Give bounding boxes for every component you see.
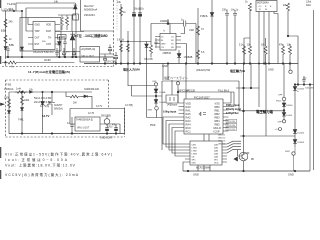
svg-text:OS-CON: OS-CON xyxy=(106,60,116,63)
resonator box xyxy=(166,95,178,103)
resistor R16 x288 xyxy=(287,3,290,36)
svg-text:D-006: D-006 xyxy=(286,115,293,117)
diode D8 at U4 right xyxy=(177,50,181,64)
terminal circle chain top xyxy=(154,83,157,86)
svg-text:0.0kg input: 0.0kg input xyxy=(163,111,176,114)
svg-text:50u(B)1b: 50u(B)1b xyxy=(134,8,145,11)
U6 left pin stubs xyxy=(179,103,185,131)
node dot xyxy=(42,91,43,92)
wire top of U6 xyxy=(178,91,234,93)
svg-text:RB4: RB4 xyxy=(215,119,221,123)
svg-text:240: 240 xyxy=(9,21,14,24)
diode D17 x9 xyxy=(8,111,11,114)
node dot xyxy=(283,110,285,112)
dashed divider x113 xyxy=(113,0,115,67)
svg-text:VCC-5V: VCC-5V xyxy=(227,129,236,131)
page border left mark lower xyxy=(0,56,2,179)
wire left input xyxy=(2,10,22,12)
svg-text:Vout: 上限異常:18.0V,下限:12.0V: Vout: 上限異常:18.0V,下限:12.0V xyxy=(5,163,76,168)
diode D5 top feed xyxy=(74,3,78,15)
svg-text:RB0: RB0 xyxy=(215,105,221,109)
svg-text:P.Setfg input: P.Setfg input xyxy=(226,108,241,111)
wire IC left feed xyxy=(21,11,23,57)
U4 left pin stubs xyxy=(155,37,160,48)
node dots y84.5 xyxy=(297,84,311,86)
svg-text:RA0: RA0 xyxy=(186,105,192,109)
svg-text:9B: 9B xyxy=(251,159,254,161)
svg-text:Vin:正常値は1~55V(動作下限:40V,異常上限:64: Vin:正常値は1~55V(動作下限:40V,異常上限:64V) xyxy=(5,152,112,157)
svg-text:NJM2360-400: NJM2360-400 xyxy=(84,88,100,91)
svg-text:1N4B: 1N4B xyxy=(59,36,65,39)
svg-text:ICSP: ICSP xyxy=(214,129,220,133)
svg-text:58V(5A): 58V(5A) xyxy=(54,108,63,111)
diode D15 x156 xyxy=(154,86,158,96)
resistor R18 x22 xyxy=(21,96,24,105)
svg-text:C2R: C2R xyxy=(189,29,194,32)
wire riser x198 xyxy=(197,8,199,64)
resistor R6b on x121 xyxy=(120,44,123,52)
capacitor C8 electrolytic polar xyxy=(132,13,136,17)
svg-text:RB5: RB5 xyxy=(215,122,221,126)
svg-text:OS-xx-2V 6.8u 47u: OS-xx-2V 6.8u 47u xyxy=(33,51,54,54)
svg-text:IoT左→14Cに接続1MΩ: IoT左→14Cに接続1MΩ xyxy=(74,33,108,38)
U7 left pin stubs xyxy=(185,144,190,162)
svg-text:1N4B4B: 1N4B4B xyxy=(160,20,169,23)
node dot xyxy=(71,116,73,118)
small box U2 xyxy=(58,35,67,40)
svg-text:Max=6V: Max=6V xyxy=(84,4,94,8)
svg-text:VC: VC xyxy=(171,44,174,46)
svg-text:13.7V: 13.7V xyxy=(96,105,103,108)
wire U7 bottom pins xyxy=(198,165,210,171)
wire riser x212 xyxy=(211,0,213,64)
upper-left box bottom dashed xyxy=(2,57,114,67)
svg-text:LTM1: LTM1 xyxy=(192,147,198,149)
svg-text:RA5: RA5 xyxy=(186,112,192,116)
diode D20 mid xyxy=(41,92,44,134)
U6 left pins xyxy=(186,101,192,133)
U4 right pin stubs xyxy=(176,37,187,64)
svg-text:13.7V: 13.7V xyxy=(42,114,49,118)
capacitor C5b xyxy=(62,48,65,57)
svg-text:PIC16F1827: PIC16F1827 xyxy=(194,95,210,99)
wire reset riser xyxy=(185,64,187,100)
zener circle comp xyxy=(104,119,110,125)
left arrow mark xyxy=(1,103,5,105)
diode D6 left of U4 xyxy=(145,42,149,59)
svg-text:1mH: 1mH xyxy=(16,88,21,91)
svg-text:TH: TH xyxy=(48,37,51,40)
svg-text:RA1: RA1 xyxy=(186,108,192,112)
node dots bottom xyxy=(187,170,296,172)
svg-text:VCC5V(の)消費電力(最大): 20mA: VCC5V(の)消費電力(最大): 20mA xyxy=(5,172,79,177)
lower mid wire y85.5 xyxy=(128,85,154,87)
svg-text:16v 1u: 16v 1u xyxy=(231,9,239,12)
component box 1R xyxy=(73,14,79,20)
U8 out wire xyxy=(100,124,120,134)
node dot xyxy=(21,10,22,11)
node dot xyxy=(177,91,179,93)
svg-text:P1B(3L: P1B(3L xyxy=(200,15,209,18)
vcc tags xyxy=(227,121,236,131)
svg-text:DAC: DAC xyxy=(306,4,311,7)
LED D9 xyxy=(210,13,214,17)
page border left mark xyxy=(0,0,2,8)
svg-text:LTM2: LTM2 xyxy=(192,150,198,152)
resistor R7 x150 xyxy=(150,24,153,58)
switch circle OFF xyxy=(282,120,285,123)
U6 right pin stubs xyxy=(223,103,229,131)
svg-text:OFF: OFF xyxy=(278,95,283,97)
bottom rail xyxy=(183,170,310,172)
wire to PWR row xyxy=(147,96,163,118)
svg-text:SW-1: SW-1 xyxy=(276,101,282,103)
svg-text:5.6 1k: 5.6 1k xyxy=(117,40,125,42)
svg-text:GND: GND xyxy=(193,173,199,177)
svg-text:P1c1,B0c2: P1c1,B0c2 xyxy=(218,90,230,92)
node dot xyxy=(155,95,157,97)
IC U4 driver box xyxy=(160,34,176,51)
capacitor C6 electrolytic xyxy=(103,54,106,64)
mosfet Q1 xyxy=(47,92,55,115)
svg-text:電圧ベースライン: 電圧ベースライン xyxy=(164,75,188,80)
wire riser x235 + cap xyxy=(233,10,237,64)
node dots gnd rail xyxy=(5,56,77,63)
wire riser x243 xyxy=(243,64,245,112)
transistor Q2 circle xyxy=(239,152,248,161)
svg-text:TA48033AS(4.5): TA48033AS(4.5) xyxy=(76,119,93,122)
wire top feed y20 xyxy=(151,23,196,25)
svg-text:GND: GND xyxy=(161,44,166,46)
svg-text:VCC-5V: VCC-5V xyxy=(227,125,236,127)
svg-text:+FQ05W5-4Q: +FQ05W5-4Q xyxy=(81,49,96,51)
resistor R12 top right xyxy=(249,3,252,11)
svg-text:GND: GND xyxy=(162,65,168,68)
node dot xyxy=(127,41,128,42)
GND rail upper-left xyxy=(6,56,114,58)
U1 pin text xyxy=(35,24,52,47)
resistor R3 xyxy=(61,15,64,30)
node dot xyxy=(243,110,245,112)
node dots mid rail xyxy=(104,63,291,65)
svg-text:MCP23008M: MCP23008M xyxy=(196,166,210,169)
wire riser x131 xyxy=(131,86,133,97)
capacitor C4 xyxy=(63,38,66,57)
svg-text:VIN (-) OUT: VIN (-) OUT xyxy=(77,127,90,129)
svg-text:VDD: VDD xyxy=(214,162,219,164)
wire riser x227 + cap xyxy=(225,10,229,64)
svg-text:100u16V: 100u16V xyxy=(305,88,314,90)
arrow mark q2 xyxy=(234,157,238,161)
svg-text:OFF: OFF xyxy=(152,81,157,83)
IC U1 controller box xyxy=(33,22,55,50)
resistor R9 on x198 xyxy=(197,50,200,59)
U7 left pins xyxy=(192,144,198,164)
terminal circle SW2b xyxy=(292,152,295,155)
node dot xyxy=(243,135,245,137)
svg-text:TL431: TL431 xyxy=(7,2,16,6)
svg-text:SPC: SPC xyxy=(192,159,197,161)
nested loop wires U6-U7 xyxy=(163,117,185,144)
wire x196 riser xyxy=(195,24,197,64)
U6 right pins xyxy=(214,101,221,133)
capacitor C14 electrolytic xyxy=(114,124,117,134)
wire y88 mid right xyxy=(236,87,259,89)
svg-text:2SK3234: 2SK3234 xyxy=(84,13,95,17)
U1 right pin stubs xyxy=(55,25,60,45)
svg-text:RB2: RB2 xyxy=(215,112,221,116)
wire left rail xyxy=(5,11,7,57)
resistor R10 bank xyxy=(243,45,246,62)
svg-text:VCC-5V: VCC-5V xyxy=(227,121,236,123)
svg-text:D2006: D2006 xyxy=(298,133,305,135)
svg-text:1N4B4B: 1N4B4B xyxy=(184,56,193,59)
wire top loop C xyxy=(20,18,61,52)
node dot xyxy=(21,91,23,93)
wire link y41.5 xyxy=(121,41,151,43)
svg-text:OUT: OUT xyxy=(35,37,41,40)
inductor L1 xyxy=(15,91,27,94)
svg-text:RB3: RB3 xyxy=(215,115,221,119)
capacitor C left xyxy=(6,46,9,57)
resistor R6c on x128 xyxy=(127,44,130,52)
wire riser x128 xyxy=(127,31,129,86)
wire VDD riser xyxy=(177,85,179,103)
node dot xyxy=(120,41,121,42)
svg-text:LTM3: LTM3 xyxy=(192,153,198,155)
svg-text:13.7(B): 13.7(B) xyxy=(125,104,133,107)
svg-text:47u: 47u xyxy=(112,123,117,126)
diode D11 xyxy=(282,113,286,120)
diode D left rail xyxy=(4,47,7,50)
resistor R4 xyxy=(66,15,69,30)
svg-text:T-B5: T-B5 xyxy=(6,83,12,86)
diode D4 big xyxy=(70,32,75,58)
stub x290 xyxy=(289,64,291,71)
terminal circle x290 xyxy=(289,70,292,73)
wire corner x244 xyxy=(244,38,250,64)
right cluster top rail xyxy=(58,14,76,16)
left rail x9 xyxy=(8,92,10,134)
resistor R8 on x198 xyxy=(197,26,200,35)
U7 right pin stubs xyxy=(222,144,227,162)
svg-text:1-12V抽头: 1-12V抽头 xyxy=(1,8,14,12)
svg-text:20mA 15V-0.5W: 20mA 15V-0.5W xyxy=(34,101,52,104)
svg-text:GND/CONT: GND/CONT xyxy=(100,137,113,140)
resistor R11 bank xyxy=(249,10,252,62)
diode D14 x295 xyxy=(293,140,297,148)
wire riser x310 xyxy=(309,85,311,172)
capacitor C9 electrolytic polar xyxy=(138,13,142,17)
diode D3 xyxy=(58,37,62,57)
svg-text:DCH: DCH xyxy=(46,30,51,33)
svg-text:1 D501A: 1 D501A xyxy=(4,88,14,91)
svg-text:GND: GND xyxy=(44,58,52,62)
svg-text:VSS: VSS xyxy=(215,101,220,105)
solid block edge x80 xyxy=(81,0,114,31)
page border right rail xyxy=(313,10,315,170)
resistor R6 on x121 xyxy=(120,7,123,16)
wire riser x168b xyxy=(167,64,169,81)
wire mid h xyxy=(55,31,84,33)
wire riser x141 xyxy=(139,0,141,64)
svg-text:11.7(B)mAの定電圧回路(B): 11.7(B)mAの定電圧回路(B) xyxy=(28,69,70,74)
wire riser x266 xyxy=(265,64,267,137)
wire pin to left rail xyxy=(26,8,28,31)
wire x237 into q2 xyxy=(238,150,243,156)
wire x170 down xyxy=(169,24,171,34)
resistor R volt-divider top xyxy=(4,19,7,27)
resistor R17 x9 xyxy=(8,99,11,108)
svg-text:12.75: 12.75 xyxy=(88,112,95,115)
section box pic xyxy=(162,81,239,150)
main mid rail xyxy=(84,63,298,65)
svg-text:D-00E: D-00E xyxy=(160,102,167,104)
terminal circle xyxy=(279,128,282,131)
wire riser x251 xyxy=(250,64,252,89)
wire corner x288-298 xyxy=(288,36,298,85)
svg-text:UR: UR xyxy=(246,153,250,155)
svg-text:RA4: RA4 xyxy=(186,122,192,126)
wire x185 drop xyxy=(181,27,185,34)
svg-text:150u: 150u xyxy=(222,9,228,12)
resistor R19 2W xyxy=(66,92,80,98)
node dot x288 xyxy=(287,35,289,37)
capacitor C13 electrolytic xyxy=(105,128,108,134)
wire interbox i2c xyxy=(204,134,209,141)
wire output row y111 xyxy=(239,110,284,112)
dotted divider x117 xyxy=(116,0,118,31)
svg-text:OB-C05: OB-C05 xyxy=(144,58,153,61)
diode D2 on x22 xyxy=(21,47,24,50)
svg-text:D2006: D2006 xyxy=(286,105,293,107)
wire x72 xyxy=(71,15,73,32)
resistor R15 bank xyxy=(289,44,292,62)
svg-text:RB1: RB1 xyxy=(215,108,221,112)
svg-text:PWR: PWR xyxy=(150,125,156,127)
svg-text:Nch25Y: Nch25Y xyxy=(54,104,63,107)
node dot xyxy=(51,91,53,93)
svg-text:TMP: TMP xyxy=(35,30,40,33)
svg-text:5.1k: 5.1k xyxy=(1,30,6,33)
wire left edge U7 xyxy=(183,162,185,171)
svg-text:T4RL: T4RL xyxy=(18,119,25,122)
wire riser x121 xyxy=(120,4,122,64)
diode D13 x295 xyxy=(293,130,297,140)
svg-text:LED D2: LED D2 xyxy=(218,137,226,139)
lower-left dashed box xyxy=(6,80,125,137)
diode D18 x22 xyxy=(21,108,24,111)
svg-text:OFF: OFF xyxy=(278,122,283,124)
svg-text:RST: RST xyxy=(35,43,40,46)
wire riser x135 xyxy=(133,0,135,64)
svg-text:P.Wty input: P.Wty input xyxy=(226,104,240,107)
wire riser x259b xyxy=(258,64,260,108)
wire riser x283 chain xyxy=(283,64,285,98)
node dot xyxy=(13,10,14,11)
svg-text:RC1: RC1 xyxy=(186,129,192,133)
node dots smps rail xyxy=(21,133,117,135)
svg-text:RC0: RC0 xyxy=(186,126,192,130)
svg-text:(15kΩ/3).5W: (15kΩ/3).5W xyxy=(196,69,211,72)
wire x295 bottom xyxy=(294,147,296,171)
svg-text:0.08g/FSet: 0.08g/FSet xyxy=(226,112,239,115)
diode D10 xyxy=(282,101,286,113)
resistor R5 horizontal xyxy=(2,61,74,64)
svg-text:電圧輸力端: 電圧輸力端 xyxy=(256,109,274,114)
resistor R14 bank xyxy=(282,44,285,62)
right chain x282 SW circle xyxy=(282,97,286,101)
wire x76 xyxy=(75,15,77,57)
rail x22 xyxy=(21,92,23,134)
svg-text:GND: GND xyxy=(35,24,41,27)
right chain labels xyxy=(275,89,305,154)
IC U6 PIC box xyxy=(184,99,223,134)
svg-text:電圧入力5/N: 電圧入力5/N xyxy=(123,66,140,71)
wire resonator riser xyxy=(171,80,173,95)
svg-text:240k: 240k xyxy=(24,99,30,102)
dashed box step xyxy=(124,108,126,138)
diode D16 x156 xyxy=(154,96,158,107)
regulator U8 box xyxy=(75,117,100,131)
wire riser x163 xyxy=(162,64,164,81)
arrow mark on wire xyxy=(30,91,33,93)
svg-text:LED D4: LED D4 xyxy=(218,143,226,145)
wire top loop B xyxy=(26,7,75,9)
U7 right pins xyxy=(214,143,219,164)
svg-text:100k: 100k xyxy=(4,96,10,99)
smps bottom rail xyxy=(9,133,125,135)
wire stub up xyxy=(167,19,169,24)
capacitor C11 xyxy=(302,76,305,85)
svg-text:16F/CON?: 16F/CON? xyxy=(178,90,190,92)
capacitor C5c xyxy=(72,48,75,57)
svg-text:MCLR: MCLR xyxy=(214,126,221,130)
svg-text:SW2: SW2 xyxy=(285,151,291,153)
svg-text:GND: GND xyxy=(268,69,274,72)
IC U7 expander box xyxy=(190,141,222,165)
Q2 internals xyxy=(242,111,246,171)
capacitor C10 x156 xyxy=(154,38,157,48)
svg-text:RA2: RA2 xyxy=(186,115,192,119)
svg-text:VDD: VDD xyxy=(46,24,51,27)
wire LED feed y136 xyxy=(240,135,295,137)
terminal circle VDD xyxy=(176,82,179,85)
svg-text:2SB815: 2SB815 xyxy=(163,52,172,55)
wire riser x234 xyxy=(229,92,235,107)
svg-text:56mA 15V-0.5W: 56mA 15V-0.5W xyxy=(34,97,52,100)
svg-text:CNT: CNT xyxy=(46,43,51,46)
svg-text:SW2: SW2 xyxy=(148,110,154,112)
svg-text:5W1(B)B: 5W1(B)B xyxy=(101,114,111,117)
capacitor C5 on gnd rail xyxy=(55,48,58,57)
resistor R volt-divider bottom xyxy=(4,35,7,43)
wire drop to reg xyxy=(70,109,75,125)
resistor R13 bank xyxy=(264,38,267,62)
svg-text:VDD: VDD xyxy=(186,101,192,105)
U6 crystal squiggle xyxy=(199,112,206,116)
svg-text:600/500mA: 600/500mA xyxy=(84,8,98,12)
svg-text:RC: RC xyxy=(171,40,175,42)
IC U5 ADC box xyxy=(256,1,277,12)
U5 pin wires down xyxy=(259,12,278,64)
wire cross y96 xyxy=(132,95,163,97)
wire right mini rail y84.5 xyxy=(296,84,314,86)
svg-text:LED D1: LED D1 xyxy=(218,134,226,136)
svg-text:+O: +O xyxy=(275,129,278,131)
svg-text:MCP3204A: MCP3204A xyxy=(257,1,269,4)
svg-text:VIN (-) OUT: VIN (-) OUT xyxy=(82,56,95,58)
